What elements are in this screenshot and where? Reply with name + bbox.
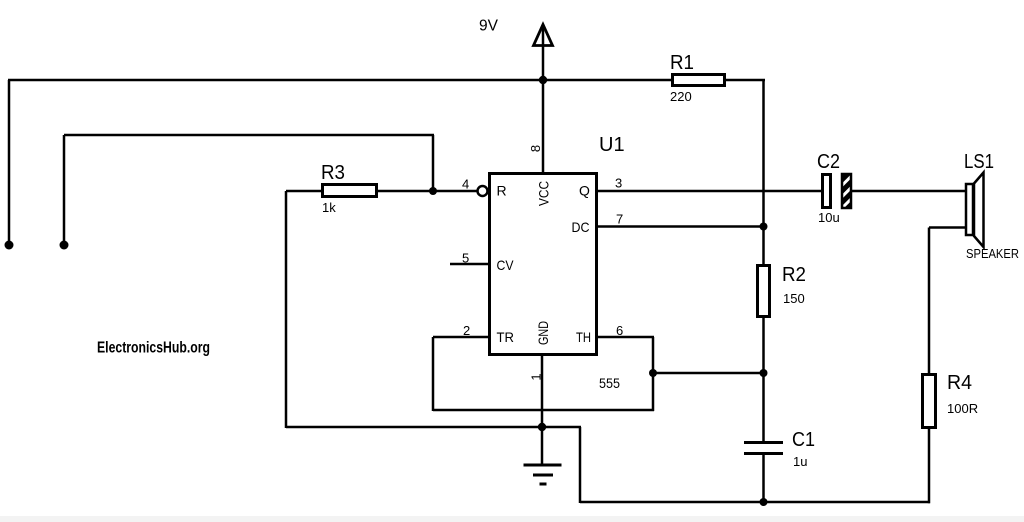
- wire top supply rail: [8, 79, 672, 82]
- wire threshold to R2 C1: [653, 372, 764, 375]
- svg-text:1k: 1k: [322, 200, 336, 215]
- node supply junction: [539, 76, 547, 84]
- svg-text:8: 8: [528, 145, 543, 152]
- svg-text:U1: U1: [599, 134, 625, 156]
- resistor R2: [758, 266, 770, 317]
- wire R1 to right corner: [725, 79, 765, 82]
- wire C2 to speaker: [852, 190, 966, 193]
- svg-text:555: 555: [599, 375, 620, 391]
- wire R3 left vertical to ground rail: [285, 191, 288, 428]
- bottom light strip: [0, 516, 1024, 522]
- svg-text:DC: DC: [572, 219, 590, 235]
- svg-text:1u: 1u: [793, 454, 807, 469]
- wire speaker to R4: [928, 228, 931, 376]
- svg-text:VCC: VCC: [536, 181, 552, 206]
- wire right vertical R1 to R2: [762, 80, 765, 266]
- node R2 C1 junction: [760, 369, 768, 377]
- wire ground rail drop: [579, 427, 582, 503]
- wire bottom rail: [580, 501, 930, 504]
- wire pin 1 to ground node: [541, 354, 544, 428]
- pin 4 inversion bubble: [478, 186, 488, 196]
- svg-text:ElectronicsHub.org: ElectronicsHub.org: [97, 340, 210, 357]
- node discharge junction: [760, 223, 768, 231]
- wire left terminal 2 drop: [63, 135, 66, 245]
- resistor R4: [923, 375, 936, 428]
- wire R3 left lead: [286, 190, 323, 193]
- wire power stem: [542, 26, 545, 81]
- ground: [524, 427, 562, 484]
- capacitor C2 right plate hatched: [842, 174, 851, 208]
- svg-text:SPEAKER: SPEAKER: [966, 247, 1019, 261]
- svg-text:LS1: LS1: [964, 151, 994, 173]
- wire R4 bottom lead: [928, 427, 931, 503]
- wire R3 right lead to reset pin: [377, 190, 477, 193]
- svg-text:R2: R2: [782, 264, 806, 286]
- resistor R1: [673, 75, 725, 86]
- svg-text:TH: TH: [576, 329, 591, 345]
- svg-text:100R: 100R: [947, 401, 978, 416]
- svg-text:C2: C2: [817, 151, 840, 173]
- wire trigger loop bottom: [433, 409, 654, 412]
- svg-text:R4: R4: [947, 372, 972, 394]
- wire threshold drop: [652, 337, 655, 411]
- wire ground rail: [286, 426, 581, 429]
- svg-text:4: 4: [462, 177, 469, 192]
- wire second rail drop to node: [432, 135, 435, 192]
- terminal dot 1: [5, 241, 14, 250]
- resistor R3: [323, 185, 377, 197]
- svg-text:R1: R1: [670, 52, 694, 74]
- capacitor C2 left plate: [823, 175, 831, 208]
- wire left terminal 1 drop: [8, 80, 11, 245]
- op-amp U1 555 IC body: [490, 174, 597, 355]
- node threshold junction: [649, 369, 657, 377]
- svg-text:220: 220: [670, 89, 692, 104]
- svg-text:150: 150: [783, 291, 805, 306]
- terminal dot 2: [60, 241, 69, 250]
- wire second rail: [64, 134, 434, 137]
- wire speaker bottom lead: [929, 226, 965, 229]
- svg-text:C1: C1: [792, 429, 815, 451]
- svg-text:CV: CV: [497, 257, 515, 273]
- wire pin 3 output to C2: [597, 190, 822, 193]
- svg-text:Q: Q: [579, 183, 590, 199]
- wire C1 bottom lead: [762, 455, 765, 503]
- node ground junction: [538, 423, 546, 431]
- wire pin 8 VCC: [542, 80, 545, 174]
- svg-text:9V: 9V: [479, 18, 499, 35]
- node C1 bottom junction: [760, 498, 768, 506]
- capacitor C1: [744, 443, 783, 454]
- power symbol 9V triangle: [534, 25, 553, 46]
- wire pin 7 discharge: [597, 225, 764, 228]
- wire pin 5 stub: [450, 263, 490, 266]
- wire R2 to C1: [762, 316, 765, 443]
- speaker LS1 body: [966, 184, 973, 235]
- wire pin 6 threshold right: [596, 336, 654, 339]
- wire pin 2 trigger left: [433, 336, 490, 339]
- wire trigger drop: [432, 337, 435, 411]
- speaker LS1 cone: [974, 173, 984, 248]
- svg-text:3: 3: [615, 176, 622, 191]
- svg-text:TR: TR: [497, 329, 515, 345]
- svg-text:R: R: [497, 183, 507, 199]
- svg-text:GND: GND: [535, 321, 551, 345]
- svg-text:7: 7: [616, 212, 623, 227]
- svg-text:R3: R3: [321, 162, 345, 184]
- svg-text:10u: 10u: [818, 210, 840, 225]
- node R3 junction: [429, 187, 437, 195]
